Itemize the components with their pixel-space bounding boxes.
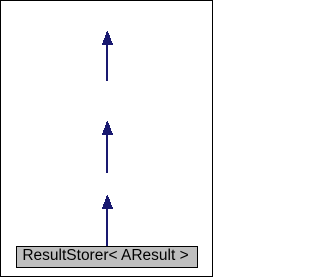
arrow 3 shaft [106, 209, 108, 246]
arrow 1 shaft [106, 45, 108, 81]
arrow 3 head [102, 195, 113, 209]
arrow 1 head [102, 31, 113, 45]
inheritance diagram canvas [0, 0, 213, 277]
arrow 2 head [102, 121, 113, 135]
arrow 2 shaft [106, 135, 108, 173]
node ResultStorer< AResult > [16, 246, 198, 268]
